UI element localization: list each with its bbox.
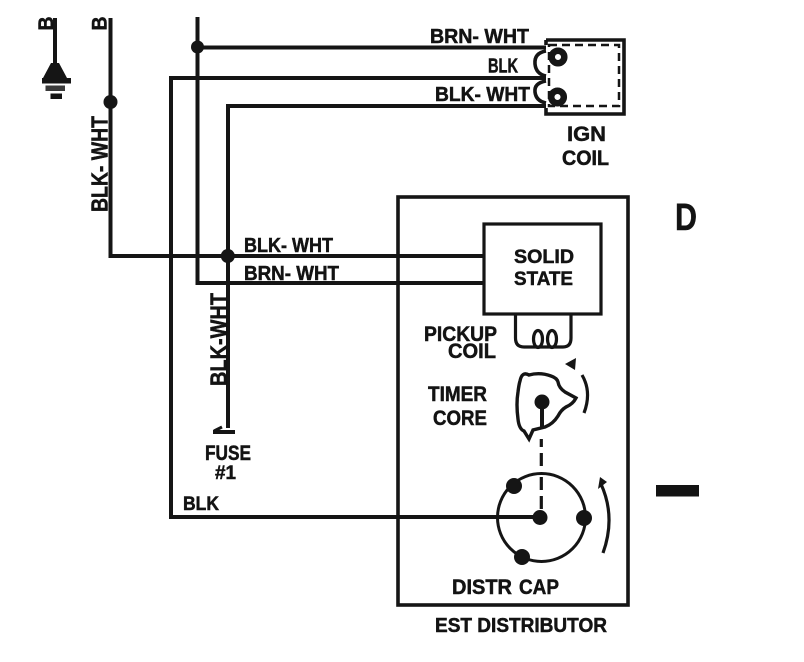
svg-text:COIL: COIL (448, 340, 496, 363)
svg-text:BLK: BLK (183, 494, 219, 515)
svg-text:BLK: BLK (488, 56, 518, 78)
svg-text:FUSE: FUSE (205, 442, 251, 465)
svg-text:TIMER: TIMER (428, 383, 487, 406)
svg-text:EST DISTRIBUTOR: EST DISTRIBUTOR (435, 615, 608, 637)
svg-text:BLK-WHT: BLK-WHT (206, 293, 232, 386)
svg-text:STATE: STATE (514, 269, 573, 290)
svg-text:BLK- WHT: BLK- WHT (244, 235, 333, 257)
svg-text:BRN- WHT: BRN- WHT (430, 26, 529, 48)
svg-text:D: D (675, 197, 697, 239)
svg-text:#1: #1 (215, 463, 236, 484)
svg-text:IGN: IGN (567, 123, 606, 146)
svg-text:CORE: CORE (433, 407, 487, 430)
svg-text:B: B (88, 17, 112, 31)
svg-text:SOLID: SOLID (514, 247, 574, 268)
svg-text:DISTR: DISTR (452, 576, 512, 599)
svg-text:B: B (34, 17, 58, 31)
svg-text:BLK- WHT: BLK- WHT (87, 116, 113, 212)
svg-text:BLK- WHT: BLK- WHT (435, 84, 530, 106)
svg-text:COIL: COIL (562, 147, 609, 170)
svg-text:CAP: CAP (519, 576, 559, 599)
svg-text:BRN- WHT: BRN- WHT (244, 263, 339, 285)
